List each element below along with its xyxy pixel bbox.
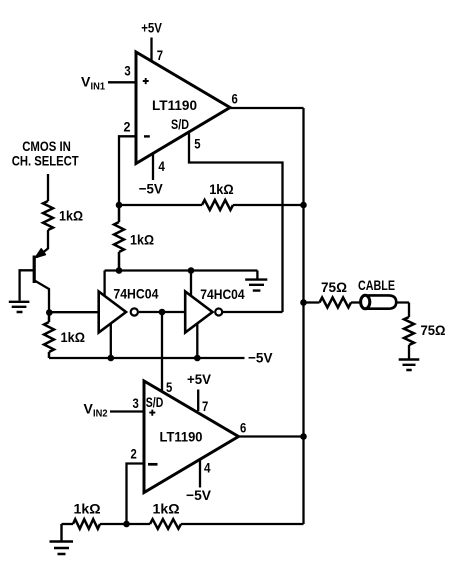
resistor R5 1k (U2 gain) [73, 519, 100, 529]
ground (cable termination) [399, 360, 420, 371]
wire node D to R6 [127, 523, 151, 525]
wire U3A output to U3B input [139, 311, 185, 313]
wire U3A top supply to rail [103, 271, 105, 297]
wire U1 pin 4 to -5V [152, 153, 154, 180]
ground (inverter rail) [245, 280, 267, 291]
svg-text:7: 7 [202, 398, 208, 414]
svg-text:4: 4 [158, 158, 165, 174]
minus sign (U2 inverting input) [148, 463, 158, 466]
node junction dot (U3B bottom) [194, 355, 201, 362]
svg-text:+5V: +5V [187, 371, 212, 387]
node junction dot (75 ohm takeoff) [300, 299, 307, 306]
resistor R1 1k (U1 feedback) [202, 200, 233, 210]
wire R7 to cable [351, 301, 361, 303]
inverter U3B output bubble [215, 309, 222, 316]
plus sign (U2 noninverting input) [149, 410, 155, 416]
node junction dot (R2 to rail) [116, 267, 123, 274]
svg-text:3: 3 [124, 63, 130, 79]
wire U2 pin 6 output [239, 435, 304, 437]
node C junction dot (S/D takeoff) [159, 309, 166, 316]
svg-text:2: 2 [131, 446, 137, 462]
svg-text:−5V: −5V [139, 181, 164, 197]
wire bus to R7 [304, 301, 320, 303]
minus sign (U1 inverting input) [144, 135, 150, 137]
wire Q1 collector to node B [35, 281, 50, 313]
svg-text:1kΩ: 1kΩ [61, 329, 86, 345]
inverter U3A output bubble [131, 308, 138, 315]
ground (bottom left) [50, 524, 74, 554]
svg-text:75Ω: 75Ω [421, 322, 446, 338]
svg-text:V: V [81, 73, 91, 89]
wire +5V to U2 pin 7 [197, 390, 199, 412]
svg-text:5: 5 [166, 379, 172, 395]
svg-text:5: 5 [194, 136, 200, 152]
wire -5V rail [49, 357, 245, 359]
svg-text:V: V [84, 401, 94, 417]
resistor R6 1k (U2 feedback) [150, 519, 181, 529]
node junction dot (U2 output to bus) [300, 433, 307, 440]
resistor R8 75 ohm (termination, vertical) [404, 317, 414, 345]
wire U2 pin 4 to -5V [199, 459, 201, 487]
wire R8 to ground [408, 345, 410, 359]
svg-text:LT1190: LT1190 [152, 97, 197, 113]
cable coax symbol body [365, 295, 396, 308]
node output bus / R1 junction dot [300, 202, 307, 209]
svg-text:1kΩ: 1kΩ [74, 501, 101, 517]
wire ground to R5 [62, 523, 74, 525]
transistor Q1 emitter arrowhead [36, 249, 46, 258]
resistor R4 1k (collector pulldown, vertical) [44, 313, 54, 359]
wire R3 to Q1 emitter [37, 230, 48, 257]
svg-text:1kΩ: 1kΩ [59, 208, 83, 224]
svg-text:+5V: +5V [141, 19, 162, 35]
wire R6 to output bus [181, 523, 304, 525]
wire +5V to U1 pin 7 [150, 38, 152, 62]
wire cable to R8 [396, 303, 409, 318]
op-amp U2 LT1190 triangle [144, 381, 239, 493]
ground (Q1 base) [9, 302, 30, 312]
svg-text:6: 6 [232, 90, 238, 106]
svg-text:CH. SELECT: CH. SELECT [12, 153, 79, 169]
plus sign (U1 noninverting input) [143, 78, 149, 84]
resistor R3 1k (CMOS input) [43, 201, 53, 230]
svg-text:IN1: IN1 [91, 82, 106, 93]
wire U1 pin 5 S/D route to inverter U3B output [189, 132, 283, 312]
wire U3A bottom supply to -5V rail [110, 323, 112, 358]
resistor R7 75 ohm (back termination) [320, 298, 352, 308]
wire Q1 base to ground [20, 270, 34, 300]
wire U1 pin 2 to feedback node A [119, 136, 136, 205]
svg-text:2: 2 [124, 119, 131, 135]
svg-text:1kΩ: 1kΩ [130, 232, 154, 248]
wire output bus vertical [302, 108, 304, 524]
wire R1 to output bus [233, 204, 304, 206]
wire VIN2 to U2 pin 3 [110, 410, 144, 412]
svg-text:74HC04: 74HC04 [113, 285, 158, 301]
cable coax symbol end ellipse [361, 295, 370, 308]
svg-text:S/D: S/D [146, 394, 164, 410]
svg-text:−5V: −5V [186, 487, 212, 503]
resistor R2 1k (U1 gain, vertical) [114, 205, 124, 271]
node junction dot (U3A bottom) [108, 355, 115, 362]
svg-text:1kΩ: 1kΩ [153, 501, 180, 517]
svg-text:LT1190: LT1190 [160, 429, 203, 445]
wire U3B bottom supply to -5V rail [196, 323, 198, 358]
wire U3B output to U1 S/D route [223, 311, 283, 313]
wire node B to inverter U3A input [49, 311, 98, 313]
node B junction dot (collector) [46, 309, 53, 316]
svg-text:−5V: −5V [248, 350, 273, 366]
inverter U3B 74HC04 triangle [185, 292, 212, 333]
wire VIN1 to U1 pin 3 [108, 81, 136, 83]
svg-text:S/D: S/D [171, 116, 189, 132]
svg-text:75Ω: 75Ω [321, 279, 347, 295]
svg-text:7: 7 [157, 47, 163, 63]
wire R5 to node D [100, 523, 127, 525]
wire U2 pin 2 to node D [127, 464, 145, 525]
svg-text:1kΩ: 1kΩ [209, 181, 234, 197]
node junction dot (U3B top to rail) [188, 267, 195, 274]
transistor Q1 base bar [33, 256, 36, 284]
wire node C to U2 pin 5 S/D [161, 312, 163, 392]
svg-text:74HC04: 74HC04 [200, 286, 244, 302]
svg-text:CABLE: CABLE [358, 277, 395, 293]
svg-text:IN2: IN2 [93, 409, 108, 420]
svg-text:6: 6 [240, 420, 246, 436]
svg-text:4: 4 [204, 460, 211, 476]
wire ground rail (inverter positive rail) [105, 271, 258, 280]
svg-text:3: 3 [133, 395, 139, 411]
wire CMOS IN to R3 [47, 174, 49, 201]
op-amp U1 LT1190 triangle [136, 52, 230, 164]
inverter U3A 74HC04 triangle [99, 292, 126, 333]
wire U3B top supply to rail [190, 271, 192, 297]
wire feedback node A to resistor [119, 204, 202, 206]
node D junction dot [123, 521, 130, 528]
node A junction dot [116, 202, 123, 209]
wire U1 pin 6 output [230, 107, 304, 109]
